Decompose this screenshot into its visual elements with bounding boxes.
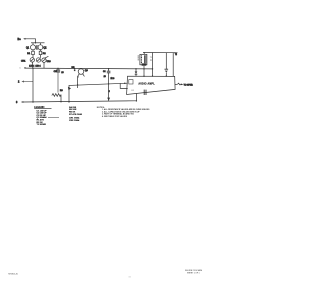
- node junction mid cross: [108, 83, 109, 84]
- wire C4 down to bottom bus: [108, 73, 110, 101]
- wire top bus: [26, 67, 153, 70]
- node terminal 2: [18, 81, 24, 84]
- wire T1 bottom lead: [143, 66, 145, 77]
- node supply dot: [174, 52, 177, 55]
- wire resistor to diode row: [32, 55, 34, 58]
- node junction B+: [35, 42, 36, 43]
- wire Q3 emitter down: [77, 76, 79, 88]
- node junction module A: [152, 75, 153, 76]
- node terminal 3: [16, 101, 23, 104]
- wire CR3 to top bus: [43, 62, 45, 68]
- svg-text:P2: P2: [150, 60, 152, 62]
- node arrow on drop: [107, 98, 110, 101]
- svg-text:U1: U1: [131, 90, 133, 92]
- wire mid level: [69, 83, 128, 102]
- capacitor C4 (on x=108.6 drop): [103, 68, 110, 78]
- diode CR1: [21, 58, 35, 63]
- svg-text:SHEET 1 OF 1: SHEET 1 OF 1: [187, 273, 200, 275]
- resistor R8 (variable, above bottom bus): [52, 90, 64, 103]
- svg-text:R7 470 OHM: R7 470 OHM: [69, 113, 82, 116]
- wire output lead: [175, 83, 182, 85]
- diode CR3: [42, 56, 52, 63]
- capacitor C5 (on rail drop B): [165, 53, 169, 77]
- svg-text:10: 10: [61, 72, 63, 74]
- node junction T1/module: [143, 76, 144, 77]
- svg-text:C4: C4: [103, 71, 105, 73]
- wire B+ feed: [25, 39, 36, 43]
- transistor Q2: [38, 43, 47, 50]
- node junction rail drop A: [152, 68, 153, 69]
- node junction T1/top bus: [143, 68, 144, 69]
- svg-text:10: 10: [104, 76, 106, 78]
- wire collector tie: [31, 42, 45, 44]
- node output arrow: [181, 84, 184, 86]
- node junction left bottom: [32, 101, 33, 102]
- node junction mid bus: [68, 101, 69, 102]
- capacitor C6 (on module bottom edge): [144, 90, 146, 95]
- wire bottom bus: [23, 101, 136, 102]
- notes column C: [97, 107, 150, 118]
- node B+ terminal: [18, 37, 26, 41]
- wire resistor R2 bottom: [39, 55, 41, 58]
- wire rail drop A: [152, 53, 154, 77]
- diode CR4 (drop to module top): [135, 68, 138, 76]
- svg-text:1N34 1N34: 1N34 1N34: [29, 66, 41, 68]
- wire rail drop C: [172, 53, 174, 76]
- svg-text:B+: B+: [18, 37, 22, 41]
- capacitor C1 (between Q1 and Q2): [36, 45, 38, 50]
- wire supply rail: [143, 51, 177, 53]
- svg-text:CR1: CR1: [21, 60, 26, 62]
- svg-text:T1 XFMR: T1 XFMR: [37, 124, 47, 126]
- diode CR2: [36, 58, 40, 62]
- node junction pin upper: [124, 83, 126, 85]
- svg-text:AUDIO AMPL: AUDIO AMPL: [138, 82, 155, 85]
- wire bottom bus riser: [135, 94, 137, 101]
- resistor R2: [39, 50, 46, 56]
- wire C3 down: [57, 72, 59, 93]
- transformer T1 (small box): [138, 52, 152, 65]
- wire left vertical: [32, 68, 34, 102]
- footer center mark: [129, 276, 131, 279]
- footer right text: [185, 270, 203, 274]
- node arrow on x69 drop: [68, 87, 71, 90]
- wire terminal 2 lead: [24, 81, 33, 83]
- parts list column A: [34, 106, 59, 126]
- svg-text:T1: T1: [150, 57, 152, 59]
- resistor R1: [27, 50, 34, 55]
- capacitor C3: [54, 68, 64, 74]
- node TP1 on top bus: [72, 67, 76, 71]
- transistor Q1: [26, 43, 36, 50]
- svg-text:TO SPKR: TO SPKR: [184, 84, 194, 86]
- node terminal 1: [19, 67, 25, 69]
- parts list column B: [69, 106, 82, 122]
- op-amp module U1 (audio amplifier box): [127, 76, 176, 94]
- svg-text:TM 5815-35: TM 5815-35: [8, 274, 18, 276]
- svg-text:CR2 1N34: CR2 1N34: [69, 119, 80, 122]
- transistor Q3: [77, 68, 88, 78]
- wire CR1 to top bus: [32, 62, 34, 68]
- svg-text:4. SEE TABLE FOR VALUES: 4. SEE TABLE FOR VALUES: [102, 115, 128, 118]
- wire pin stub lower: [120, 83, 128, 88]
- node junction mid wire: [77, 84, 78, 85]
- node junction left top: [32, 68, 33, 69]
